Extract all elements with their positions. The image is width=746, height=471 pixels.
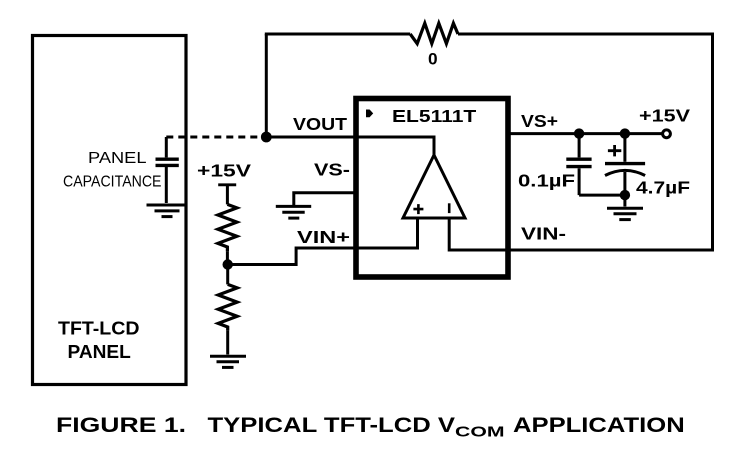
wire VS+ rail <box>508 132 667 135</box>
wire dashed VOUT to panel <box>166 136 262 139</box>
ground (VS-) <box>276 205 311 208</box>
op-amp minus mark <box>448 203 451 213</box>
svg-text:+15V: +15V <box>197 160 251 180</box>
ground (panel capacitance) <box>147 204 188 207</box>
node dot C1 top <box>574 128 584 138</box>
ground (divider) <box>210 355 246 358</box>
resistor R0 <box>410 23 458 43</box>
wire feedback top right <box>458 33 714 36</box>
wire feedback top left <box>265 33 410 36</box>
op-amp box U1 EL5111T <box>356 99 508 278</box>
svg-text:0.1µF: 0.1µF <box>518 171 575 191</box>
wire inverting input to VIN- <box>449 218 511 250</box>
wire feedback left riser <box>265 34 268 137</box>
node divider junction dot <box>223 259 233 269</box>
wire VS- to ground <box>294 193 356 205</box>
svg-text:+15V: +15V <box>639 106 690 126</box>
svg-text:TFT-LCD: TFT-LCD <box>58 319 140 339</box>
wire feedback bottom <box>508 249 714 252</box>
TFT-LCD panel box <box>33 36 187 385</box>
svg-text:CAPACITANCE: CAPACITANCE <box>63 174 162 191</box>
wire R1 to node <box>226 251 229 261</box>
wire VOUT into box and to op-amp apex <box>266 137 434 156</box>
svg-text:VIN-: VIN- <box>521 224 566 244</box>
svg-text:0: 0 <box>428 50 438 69</box>
node VOUT junction dot <box>261 132 272 143</box>
svg-text:4.7µF: 4.7µF <box>636 178 690 198</box>
svg-text:COM: COM <box>455 424 505 441</box>
terminal +15V open circle <box>663 130 671 138</box>
svg-text:EL5111T: EL5111T <box>392 106 477 126</box>
svg-text:FIGURE 1.: FIGURE 1. <box>56 414 186 437</box>
op-amp plus mark <box>413 204 423 214</box>
wire noninverting input to VIN+ <box>230 218 418 265</box>
op-amp triangle <box>403 155 465 218</box>
svg-text:APPLICATION: APPLICATION <box>513 414 685 437</box>
supply stub bar <box>218 183 236 186</box>
wire to ground <box>623 195 626 206</box>
svg-text:VS+: VS+ <box>521 111 558 131</box>
wire R2 to ground <box>226 330 229 354</box>
capacitor C1 0.1uF <box>578 134 581 158</box>
capacitor C2 4.7uF electrolytic <box>623 134 626 162</box>
wire C1 bottom to C2 bottom <box>579 194 625 197</box>
resistor R2 bottom of divider <box>218 284 237 330</box>
wire feedback right riser <box>711 34 714 250</box>
pin 1 marker <box>366 110 373 118</box>
svg-text:VS-: VS- <box>314 160 350 180</box>
svg-text:PANEL: PANEL <box>68 342 131 362</box>
svg-text:VOUT: VOUT <box>293 114 347 134</box>
polarity plus mark <box>608 145 621 156</box>
svg-text:TYPICAL TFT-LCD V: TYPICAL TFT-LCD V <box>208 414 456 437</box>
svg-text:VIN+: VIN+ <box>297 227 350 247</box>
ground (C2) <box>607 207 643 210</box>
svg-text:PANEL: PANEL <box>88 150 147 167</box>
resistor R1 top of divider <box>218 204 237 251</box>
wire node down to R2 <box>226 265 229 285</box>
capacitor C panel <box>165 137 168 157</box>
node dot C2 top <box>620 128 630 138</box>
node dot C2 bottom <box>620 190 630 200</box>
